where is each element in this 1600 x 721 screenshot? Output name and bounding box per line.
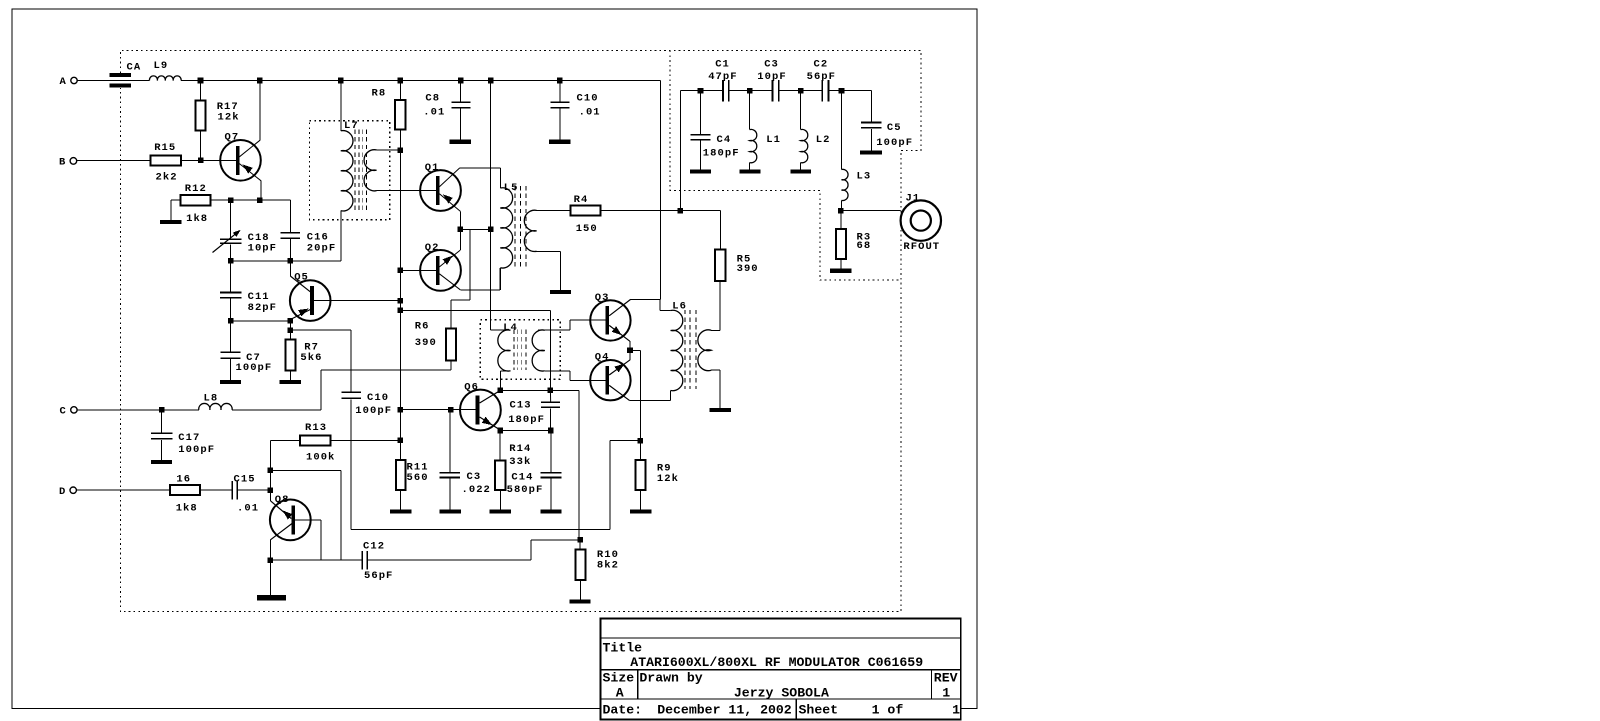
transistor Q3 [590,300,630,340]
capacitor C13 [549,390,551,402]
ground Q8 [257,595,286,601]
resistor R6 [446,328,456,360]
svg-text:Q2: Q2 [425,242,440,254]
svg-text:C3: C3 [467,471,482,483]
L5 core [514,186,516,269]
svg-text:10pF: 10pF [248,242,277,254]
svg-text:L9: L9 [154,60,169,72]
svg-text:100pF: 100pF [236,362,273,374]
resistor R11 [396,460,406,490]
svg-text:Q5: Q5 [294,272,309,284]
L7 core [354,130,356,211]
svg-text:C14: C14 [511,472,533,484]
wire L4 left coil bottom leg [499,371,501,390]
wire Q6 base row [400,409,475,411]
wire emitter feed rail x490 [490,81,492,331]
svg-text:100pF: 100pF [178,444,215,456]
wire Q5 emitter [290,310,310,320]
svg-text:16: 16 [176,473,191,485]
svg-text:Q6: Q6 [464,382,479,394]
ground C3 [440,509,461,513]
svg-text:December 11, 2002: December 11, 2002 [657,702,792,717]
wire Q6 collector [480,390,501,403]
svg-text:1: 1 [952,702,960,717]
transformer L4 dashed box [480,320,560,380]
inductor L6 secondary [711,329,720,331]
inductor L4 right winding [538,329,570,331]
wire A input [77,80,149,82]
svg-text:56pF: 56pF [364,570,393,582]
capacitor C17 [161,410,163,433]
svg-text:1 of: 1 of [872,702,904,717]
wire Q4 collector [609,385,630,400]
svg-text:180pF: 180pF [508,414,545,426]
capacitor C5 [870,91,872,122]
transistor Q1 [420,170,461,211]
svg-text:J1: J1 [906,192,921,204]
svg-text:2k2: 2k2 [156,172,178,184]
wire L7 primary bottom leg [340,211,342,261]
capacitor C4 [700,91,702,135]
inductor L5 primary [499,168,501,188]
capacitor C2 [821,80,823,101]
transistor Q8 [270,500,311,541]
svg-text:Jerzy SOBOLA: Jerzy SOBOLA [734,686,829,701]
wire R4 to R5 and filter [601,209,721,211]
node A terminal [71,77,77,83]
resistor R9 [635,460,645,490]
inductor L7 primary [340,81,342,131]
wire Q3 Q4 emitter junction [627,348,633,354]
svg-text:Q3: Q3 [595,292,610,304]
module dashed box outline [120,51,921,612]
capacitor C1 [722,80,724,101]
drawing border frame [12,9,977,709]
ground C8 [450,140,471,144]
wire R6 top feed [469,229,471,300]
wire R13 left [270,439,300,441]
ground C5 [860,150,882,154]
wire Q6 emitter [480,417,500,430]
svg-text:100pF: 100pF [355,405,392,417]
svg-text:R4: R4 [574,194,589,206]
ground R7 [280,380,301,384]
wire D input [76,489,169,491]
svg-text:100k: 100k [306,451,335,463]
wire L4 to Q3 base [569,320,571,330]
svg-text:R8: R8 [372,88,387,100]
inductor L3 [841,91,843,170]
svg-text:.01: .01 [423,107,445,119]
L4 core [513,330,515,371]
wire x490 to L4 [490,229,492,330]
svg-text:82pF: 82pF [248,302,277,314]
inductor L6 primary [659,299,661,310]
wire top supply rail [181,80,661,82]
ground L6 secondary [710,408,731,412]
svg-text:R13: R13 [305,422,327,434]
wire Q8 collector [271,524,292,540]
wire Q2 base [400,269,436,271]
svg-text:R14: R14 [509,443,531,455]
svg-text:C5: C5 [887,122,902,134]
capacitor C10 bypass [559,81,561,102]
wire R6 bottom to input C net [450,360,452,370]
svg-text:C: C [60,406,67,418]
wire Q1 Q2 emitters junction [460,228,490,230]
wire R9 node from C10 100pF [351,528,610,530]
svg-text:C15: C15 [234,473,256,485]
wire Q5 base to bias rail [314,300,400,302]
svg-text:150: 150 [576,223,598,235]
wire C11 to Q5 emitter [231,320,291,322]
inductor L1 [749,91,751,130]
ground C10 bypass [549,140,570,144]
transistor Q6 [460,390,501,431]
wire down to C16 [289,200,291,232]
svg-text:C12: C12 [363,541,385,553]
wire R12 right / Q7 emitter row [211,199,291,201]
ground C14 [540,509,561,513]
svg-text:C4: C4 [717,134,732,146]
svg-text:33k: 33k [509,456,531,468]
resistor R14 [499,431,501,461]
node junction dots on top rail [198,78,204,84]
wire Q1 collector to L5 [439,168,460,187]
L6 core [684,310,686,389]
wire Q6 emitter node [500,430,551,432]
svg-text:R15: R15 [154,142,176,154]
wire C10 100pF bottom to R10 row [350,399,352,529]
filter compartment dashed partition [670,51,901,281]
wire filter input [680,90,723,92]
wire supply rail right branch [660,81,662,300]
svg-text:L2: L2 [816,134,831,146]
wire oscillator node y261 [231,260,341,262]
svg-text:C13: C13 [510,400,532,412]
svg-text:RFOUT: RFOUT [903,241,940,253]
connector J1 RFOUT [841,210,901,212]
svg-text:C2: C2 [814,58,829,70]
svg-text:68: 68 [857,240,872,252]
svg-text:56pF: 56pF [807,71,836,83]
svg-text:1k8: 1k8 [176,503,198,515]
wire C15 to Q8 base node [238,489,270,491]
svg-text:Q4: Q4 [595,352,610,364]
svg-text:C10: C10 [577,92,599,104]
wire Q5 collector to osc node [289,261,291,276]
resistor R8 [399,81,401,101]
ground L5 secondary [550,290,571,294]
wire Q5 emitter to C10 100pF [290,329,351,331]
capacitor C8 [460,81,462,102]
ground C17 [151,460,172,464]
svg-text:20pF: 20pF [307,242,336,254]
svg-text:C1: C1 [715,58,730,70]
svg-text:L3: L3 [857,170,872,182]
svg-text:B: B [59,157,66,169]
svg-text:Size: Size [603,670,635,685]
wire C2 to C5 [829,90,872,92]
wire R13 right to bias rail [331,439,401,441]
svg-text:47pF: 47pF [708,71,737,83]
resistor R13 [300,436,330,446]
capacitor C7 [230,321,232,352]
wire to C15 [200,489,231,491]
wire Q3 collector [609,299,630,315]
transistor Q2 [420,250,461,291]
svg-text:C3: C3 [764,58,779,70]
wire L4 to Q4 base [569,371,571,381]
ground C4 [690,169,711,173]
inductor L5 secondary [537,209,571,211]
wire Q3 base bias [400,309,550,311]
svg-text:D: D [59,486,66,498]
svg-text:L4: L4 [503,322,518,334]
resistor R7 [285,340,295,371]
svg-text:ATARI600XL/800XL RF MODULATOR: ATARI600XL/800XL RF MODULATOR C061659 [630,655,923,670]
capacitor C18 trimmer [230,200,232,238]
svg-text:L1: L1 [766,134,781,146]
wire x550 riser to C13 [549,310,551,390]
node D terminal [70,487,76,493]
ground L1 [740,169,761,173]
wire Q7 collector [239,140,260,157]
resistor R12 [181,195,211,205]
inductor L9 [149,76,181,81]
svg-text:Q7: Q7 [225,132,240,144]
svg-text:C8: C8 [425,92,440,104]
svg-text:L7: L7 [344,120,359,132]
svg-text:REV: REV [934,670,958,685]
wire feedback to C12 [270,469,341,471]
capacitor C15 [231,481,233,500]
svg-text:A: A [60,76,67,88]
resistor R3 [840,211,842,229]
capacitor C14 [550,431,552,472]
svg-text:5k6: 5k6 [300,352,322,364]
wire Q8 emitter diagonal [269,490,271,501]
svg-text:12k: 12k [657,473,679,485]
wire R15 to Q7 base [181,159,236,161]
svg-text:Q1: Q1 [425,162,440,174]
transistor Q5 [290,280,331,321]
svg-text:10pF: 10pF [757,71,786,83]
resistor R17 [200,81,202,101]
wire L8 to riser [232,409,321,411]
wire Q7 emitter [239,164,261,181]
svg-text:Sheet: Sheet [799,702,839,717]
resistor 16 [170,485,200,495]
capacitor C3 filter [772,80,774,101]
svg-text:.01: .01 [579,107,601,119]
capacitor CA feedthrough [110,73,132,77]
ground R3 [830,269,852,273]
wire Q4 emitter [609,360,630,375]
ground C7 [220,380,241,384]
node C terminal [71,407,77,413]
svg-text:1: 1 [942,686,950,701]
wire Q8 base to C12 row [295,519,321,521]
wire Q3 emitter [609,325,630,341]
wire Q6 collector node to C13 [500,389,579,391]
resistor R15 [151,155,182,165]
wire B input [77,159,151,161]
svg-text:Drawn by: Drawn by [639,670,702,685]
resistor R5 [719,210,721,249]
ground R11 [390,509,411,513]
capacitor C3 [449,410,451,472]
ground R14 [490,509,511,513]
svg-text:L8: L8 [204,392,219,404]
wire C12 to R10 [368,559,531,561]
svg-text:Date:: Date: [603,702,643,717]
transformer L7 dashed box [310,121,390,220]
svg-text:.01: .01 [237,503,259,515]
resistor R4 [571,205,601,215]
svg-text:1k8: 1k8 [186,213,208,225]
wire Q2 collector to L5 bottom [439,274,460,290]
wire C3 to C2 [779,90,823,92]
wire C12 row [270,559,361,561]
svg-text:12k: 12k [218,112,240,124]
svg-text:CA: CA [127,62,142,74]
ground R10 [570,599,591,603]
wire R12 left to ground [171,199,181,201]
node B terminal [70,158,77,165]
wire C1 to C3 [729,90,773,92]
svg-text:.022: .022 [462,484,491,496]
wire filter feed riser [679,91,681,211]
filter node dots [698,88,704,94]
inductor L2 [800,91,802,130]
title block [600,619,960,720]
svg-text:R12: R12 [185,183,207,195]
resistor R10 [577,537,583,543]
svg-text:L5: L5 [504,182,519,194]
wire C input [77,409,199,411]
capacitor C12 [361,551,363,570]
wire Q1 emitter [439,194,460,212]
inductor L8 [199,403,232,409]
svg-text:180pF: 180pF [703,147,740,159]
svg-text:R6: R6 [415,321,430,333]
svg-text:580pF: 580pF [507,484,544,496]
wire Q4 base vertical [578,390,580,540]
capacitor C10 100pF [342,391,361,393]
transistor Q7 [220,140,261,181]
wire Q2 emitter [439,250,460,267]
svg-text:C10: C10 [367,392,389,404]
svg-text:Title: Title [603,641,643,656]
svg-text:8k2: 8k2 [597,560,619,572]
svg-text:Q8: Q8 [275,494,290,506]
svg-text:A: A [616,686,624,701]
ground L2 [790,169,811,173]
capacitor C11 [230,261,232,292]
svg-text:C17: C17 [178,432,200,444]
capacitor C16 [281,232,300,234]
wire R5 to L6 secondary [719,281,721,331]
svg-text:390: 390 [415,337,437,349]
svg-text:560: 560 [407,472,429,484]
svg-text:100pF: 100pF [876,137,913,149]
inductor L7 secondary [377,149,401,151]
inductor L4 left winding [492,329,511,331]
ground R9 [630,509,651,513]
svg-text:390: 390 [737,263,759,275]
wire bias rail x400 [399,150,401,460]
transistor Q4 [590,360,630,400]
ground R12 [160,220,181,224]
